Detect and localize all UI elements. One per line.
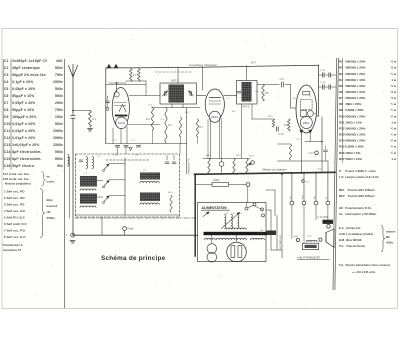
svg-text:Transfo alimentation Tous sect: Transfo alimentation Tous secteurs xyxy=(345,263,391,267)
svg-text:50v: 50v xyxy=(57,164,63,168)
coil row under D xyxy=(140,203,159,205)
speaker connector terminal 2 xyxy=(302,201,306,205)
pickup jack terminal xyxy=(251,161,255,165)
output transformer primary blob xyxy=(323,220,334,224)
svg-text:20000Ω ± 10%: 20000Ω ± 10% xyxy=(345,78,365,82)
svg-text:HP.: HP. xyxy=(339,206,344,210)
svg-text:Lampes pilotes 6,3v-0,3A: Lampes pilotes 6,3v-0,3A xyxy=(345,175,378,179)
V1 triode anode xyxy=(119,105,126,112)
rectifier anode left xyxy=(231,246,235,258)
MF2 rail feed xyxy=(246,66,248,81)
commande CV vertical wire xyxy=(186,108,188,174)
svg-text:R.1: R.1 xyxy=(93,118,97,121)
svg-text:Potent. 0,5MΩ A + inter.: Potent. 0,5MΩ A + inter. xyxy=(345,169,377,173)
secondary winding right xyxy=(251,238,265,239)
svg-text:50000Ω ± 20%: 50000Ω ± 20% xyxy=(345,139,365,143)
svg-text:R10: R10 xyxy=(339,114,345,118)
left edge vertical wire xyxy=(105,68,107,144)
svg-text:50000Ω ± 20%: 50000Ω ± 20% xyxy=(345,60,365,64)
padding trimmer in block xyxy=(79,159,83,161)
wire V2 plate to MF2 xyxy=(224,95,237,97)
svg-text:R12: R12 xyxy=(339,126,345,130)
svg-text:550v: 550v xyxy=(55,157,63,161)
V1 name cartouche xyxy=(116,117,128,129)
svg-text:500v: 500v xyxy=(55,94,63,98)
coupling capacitor xyxy=(281,82,283,87)
svg-text:C13: C13 xyxy=(4,143,11,147)
400 ohm wires xyxy=(195,184,212,186)
MF1 transformer box xyxy=(160,83,197,104)
svg-text:Schéma de principe: Schéma de principe xyxy=(101,255,166,262)
HT filter cap 2a xyxy=(321,85,323,89)
svg-text:B.M.: B.M. xyxy=(339,238,345,242)
svg-text:250v: 250v xyxy=(55,101,63,105)
svg-text:0,05μF ± 20%: 0,05μF ± 20% xyxy=(12,87,35,91)
svg-text:½ w: ½ w xyxy=(391,66,397,70)
wire V1 lower right xyxy=(127,123,160,125)
svg-text:C.47: C.47 xyxy=(307,236,312,238)
svg-text:50000Ω ± 20%: 50000Ω ± 20% xyxy=(345,72,365,76)
svg-text:7.A: 7.A xyxy=(260,229,264,232)
svg-text:Transfo Sortie: Transfo Sortie xyxy=(346,244,365,248)
wire V1 plate to MF1 xyxy=(129,95,160,97)
svg-text:C3: C3 xyxy=(4,73,9,77)
svg-text:C8: C8 xyxy=(4,108,9,112)
antenna xyxy=(69,65,78,78)
svg-text:C.17: C.17 xyxy=(309,152,315,155)
electrolytic block right of box xyxy=(267,231,277,236)
svg-text:MF2: MF2 xyxy=(339,194,345,198)
400 ohm terminal xyxy=(246,183,250,187)
svg-text:455kc.: 455kc. xyxy=(47,216,56,220)
frame aerial coil b xyxy=(92,157,94,169)
svg-text:½ w: ½ w xyxy=(391,60,397,64)
svg-text:T.S.: T.S. xyxy=(339,244,344,248)
IF decoupling resistor d xyxy=(196,119,198,137)
svg-text:d'acord: d'acord xyxy=(47,204,58,208)
secondary winding mid xyxy=(217,238,247,240)
V2 plate bar xyxy=(210,97,221,99)
IF decoupling resistor b xyxy=(165,108,167,144)
svg-text:1 Self osc. PO: 1 Self osc. PO xyxy=(4,190,25,194)
svg-text:C7: C7 xyxy=(4,101,9,105)
output tube V3 envelope xyxy=(296,85,317,133)
HT filter cap 1a xyxy=(321,73,323,77)
svg-text:C.14: C.14 xyxy=(258,233,264,235)
svg-text:100μμF ± 20%: 100μμF ± 20% xyxy=(12,115,36,119)
pilot feed wire xyxy=(211,235,213,244)
IF decoupling resistor c xyxy=(179,117,181,137)
HT caps row2 leads xyxy=(319,86,323,88)
wire right HT vertical xyxy=(318,65,320,116)
oscillator coil block A xyxy=(80,176,97,187)
svg-text:4 Self osc. GO: 4 Self osc. GO xyxy=(4,209,26,213)
svg-text:R8: R8 xyxy=(339,102,343,106)
svg-text:50000Ω ± 20%: 50000Ω ± 20% xyxy=(345,96,365,100)
svg-text:150Ω ± 10%: 150Ω ± 10% xyxy=(345,120,362,124)
svg-text:R.13: R.13 xyxy=(249,156,254,158)
svg-text:Commande CV: Commande CV xyxy=(188,158,191,175)
mains terminal xyxy=(71,233,75,237)
transformer horizontal winding xyxy=(226,228,246,229)
svg-text:interrupteur { HP 455kc: interrupteur { HP 455kc xyxy=(345,212,376,216)
svg-text:400Ω: 400Ω xyxy=(213,178,219,182)
V2 heater pins xyxy=(207,120,209,159)
selector terminal right a xyxy=(261,208,264,211)
svg-text:150v: 150v xyxy=(55,115,63,119)
V3 anode circle right xyxy=(308,111,314,117)
heater wire row above bus xyxy=(203,158,250,160)
tone network horizontal xyxy=(278,143,291,145)
padder coil block C xyxy=(140,173,160,180)
waveband switch arrow 1 xyxy=(104,164,109,170)
svg-text:500v: 500v xyxy=(55,66,63,70)
speaker magnet box xyxy=(303,243,319,249)
svg-text:49pF céramique: 49pF céramique xyxy=(12,66,40,70)
svg-text:¼ w: ¼ w xyxy=(391,126,397,130)
svg-text:R1: R1 xyxy=(339,60,343,64)
svg-text:R4: R4 xyxy=(339,78,343,82)
svg-text:T.A.: T.A. xyxy=(339,263,344,267)
switch feed wire xyxy=(247,186,249,202)
svg-text:C17 Cond. var. Osc.: C17 Cond. var. Osc. xyxy=(3,172,30,176)
svg-text:1500v: 1500v xyxy=(53,80,63,84)
MF2 bottom wires xyxy=(241,104,243,159)
svg-text:C12: C12 xyxy=(4,136,11,140)
wire down to bus right xyxy=(321,161,323,172)
svg-text:440.: 440. xyxy=(56,59,63,63)
svg-text:¼ w: ¼ w xyxy=(391,114,397,118)
svg-text:R.15: R.15 xyxy=(268,116,273,118)
svg-text:HAUT-PARLEUR: HAUT-PARLEUR xyxy=(298,255,320,259)
screen resistor R3 xyxy=(138,69,141,82)
V2 grid dashes xyxy=(209,100,221,102)
block bottom wire xyxy=(76,214,180,216)
speaker cone xyxy=(326,229,334,248)
svg-text:C4: C4 xyxy=(4,80,9,84)
svg-text:R9: R9 xyxy=(339,108,343,112)
left feed vertical wire xyxy=(69,157,71,218)
HT filter cap 2b xyxy=(328,85,330,89)
svg-text:CAD: CAD xyxy=(339,232,345,236)
antenna series capacitor xyxy=(71,114,75,116)
svg-text:R14: R14 xyxy=(339,139,345,143)
selector link wire xyxy=(255,206,263,209)
antenna branch wire xyxy=(73,110,90,112)
speaker connector verticals xyxy=(291,173,293,202)
rail label underline dashes xyxy=(155,71,192,73)
svg-text:1 w: 1 w xyxy=(391,120,397,124)
HT caps row1 leads xyxy=(319,74,323,76)
svg-text:50μμF ± 10%: 50μμF ± 10% xyxy=(12,108,34,112)
scan speckle noise xyxy=(11,30,394,306)
svg-text:C.12: C.12 xyxy=(296,139,301,141)
selector terminal right b xyxy=(262,214,265,217)
svg-text:0,01μF ± 20%: 0,01μF ± 20% xyxy=(12,136,35,140)
speaker field terminal a xyxy=(296,238,299,241)
left coil list header xyxy=(3,172,58,253)
svg-text:500Ω ± 10%: 500Ω ± 10% xyxy=(345,157,362,161)
svg-text:30000Ω ± 20%: 30000Ω ± 20% xyxy=(345,66,365,70)
svg-text:8μF électrochim.: 8μF électrochim. xyxy=(12,150,41,154)
svg-text:½ w: ½ w xyxy=(391,96,397,100)
switch link wires xyxy=(97,180,103,182)
block inner vertical wire xyxy=(124,158,126,215)
svg-text:50000Ω ± 20%: 50000Ω ± 20% xyxy=(345,84,365,88)
bias resistor c xyxy=(246,159,248,174)
svg-text:en: en xyxy=(47,175,51,179)
transformer primary coil 3 xyxy=(238,215,239,229)
MF2 bottom link wire xyxy=(252,118,274,120)
svg-text:50μμF 2% mica 2kv: 50μμF 2% mica 2kv xyxy=(12,73,46,77)
mid band wire below MF1 xyxy=(152,107,201,109)
wire tuning box to mains line xyxy=(101,217,103,235)
resistor bottom stubs xyxy=(152,130,154,144)
svg-text:0,5MΩ ± 20%: 0,5MΩ ± 20% xyxy=(345,108,364,112)
svg-text:à la plaque Télévision: à la plaque Télévision xyxy=(189,63,217,67)
svg-text:R15: R15 xyxy=(339,145,345,149)
svg-text:R2: R2 xyxy=(339,66,343,70)
svg-text:30000Ω ± 20%: 30000Ω ± 20% xyxy=(345,126,365,130)
svg-text:R6: R6 xyxy=(339,90,343,94)
svg-text:Potentiomètre R 24,: Potentiomètre R 24, xyxy=(345,206,371,210)
svg-text:C2: C2 xyxy=(4,66,9,70)
svg-text:¼ w: ¼ w xyxy=(391,145,397,149)
svg-text:E.A.: E.A. xyxy=(339,226,345,230)
speaker connector terminal 4 xyxy=(326,201,330,205)
grid resistor before V3 xyxy=(288,119,291,131)
ground below antenna resistor xyxy=(88,128,93,130)
pickup jack arrow xyxy=(247,163,252,166)
rectifier anode right xyxy=(238,246,242,258)
svg-text:Bloc MF/HF.: Bloc MF/HF. xyxy=(346,238,362,242)
svg-text:Entrée Ant.: Entrée Ant. xyxy=(346,226,361,230)
svg-text:MF1: MF1 xyxy=(339,188,345,192)
svg-text:C.15: C.15 xyxy=(321,70,326,72)
wire under screen resistors xyxy=(126,80,146,82)
cathode bypass cap xyxy=(276,127,278,131)
wire row above AVC caps xyxy=(106,143,187,145)
antenna lead wire lower xyxy=(72,118,74,235)
transformer primary coil 2 xyxy=(231,215,232,229)
svg-text:C15: C15 xyxy=(4,157,11,161)
V1 grid dashes xyxy=(115,102,128,104)
vertical rail to V2 screen xyxy=(202,67,204,90)
wire horizontal mid output xyxy=(305,141,322,143)
svg-text:R.10: R.10 xyxy=(293,98,298,100)
svg-text:P.: P. xyxy=(339,169,342,173)
svg-text:ALIMENTATION: ALIMENTATION xyxy=(202,206,228,210)
converter tube V1 envelope xyxy=(112,88,129,129)
secondary winding left xyxy=(205,238,216,239)
frame aerial coil a xyxy=(86,157,88,169)
MF2 diode load resistor xyxy=(262,85,265,102)
speaker wires down xyxy=(291,205,293,239)
svg-text:1 w: 1 w xyxy=(391,157,397,161)
output net cap xyxy=(324,149,328,151)
svg-text:Noyaux (réglables): Noyaux (réglables) xyxy=(5,182,31,186)
svg-text:T: T xyxy=(66,234,68,238)
svg-text:2 Self acc. GO: 2 Self acc. GO xyxy=(4,196,25,200)
svg-text:M.F.2: M.F.2 xyxy=(243,104,250,108)
electrolytic plus symbol 1 xyxy=(107,64,111,68)
coil under block B xyxy=(80,206,96,208)
speaker connector terminal 3 xyxy=(314,201,318,205)
block right trimmer caps xyxy=(165,161,169,163)
HT supply rail xyxy=(106,65,319,68)
svg-text:7 Self osc. P.O: 7 Self osc. P.O xyxy=(4,229,26,233)
thick vertical supply line xyxy=(194,174,196,256)
svg-text:550v: 550v xyxy=(55,150,63,154)
wire MF1 to V2 grid xyxy=(197,95,206,97)
V3 top electrode xyxy=(303,92,310,95)
V2 cathode wires down xyxy=(210,119,212,159)
svg-text:C18 Cond. var. Acc.: C18 Cond. var. Acc. xyxy=(3,177,30,181)
svg-text:HF: HF xyxy=(47,210,51,214)
svg-text:EBL1: EBL1 xyxy=(303,121,310,125)
400 ohm resistor box xyxy=(212,183,229,187)
V3 cathode arrow left xyxy=(300,130,303,133)
svg-text:L.P.: L.P. xyxy=(339,175,344,179)
svg-text:C6: C6 xyxy=(4,94,9,98)
AVC dashed line xyxy=(106,159,150,161)
pilot lamp upper circle xyxy=(207,244,217,254)
mains bottom line xyxy=(73,234,198,236)
svg-text:vers cadre ext.: vers cadre ext. xyxy=(279,235,282,250)
svg-text:C.16: C.16 xyxy=(321,82,326,84)
svg-text:150Ω ± 5%: 150Ω ± 5% xyxy=(345,151,360,155)
svg-text:Masse du chassis: Masse du chassis xyxy=(263,168,287,172)
svg-text:8μF électrochim.: 8μF électrochim. xyxy=(12,157,41,161)
svg-text:Transfo MF2 455kc/s: Transfo MF2 455kc/s xyxy=(348,194,376,198)
svg-text:R13: R13 xyxy=(339,133,345,137)
svg-text:valeurs: valeurs xyxy=(386,230,396,234)
svg-text:A.B.: A.B. xyxy=(294,235,299,238)
V3 name cartouche xyxy=(300,117,312,129)
V3 screen dashed box xyxy=(300,100,312,110)
svg-text:C11: C11 xyxy=(4,129,10,133)
svg-text:15000Ω ± 20%: 15000Ω ± 20% xyxy=(345,90,365,94)
wire to V3 grid xyxy=(290,85,292,109)
electrolytic plus symbol 2 xyxy=(114,64,118,68)
svg-text:1 w: 1 w xyxy=(391,78,397,82)
svg-text:1MΩ ± 20%: 1MΩ ± 20% xyxy=(345,102,361,106)
wire output coupling vertical xyxy=(321,117,323,161)
svg-text:M.F.1: M.F.1 xyxy=(172,79,179,83)
svg-text:0,02μF ± 20%: 0,02μF ± 20% xyxy=(12,122,35,126)
svg-text:R5: R5 xyxy=(339,84,343,88)
svg-text:R.11: R.11 xyxy=(206,155,211,157)
frame aerial feed coil xyxy=(68,155,69,167)
padder coil block D xyxy=(140,193,160,202)
svg-text:C16: C16 xyxy=(4,164,11,168)
svg-text:2x0,05μF ± 20%: 2x0,05μF ± 20% xyxy=(12,143,39,147)
alim right vertical a xyxy=(270,210,272,250)
left capacitor parts table xyxy=(3,59,63,170)
svg-text:3 Self acc. PO: 3 Self acc. PO xyxy=(4,203,25,207)
pilot lamp lower circle xyxy=(207,252,217,262)
tone resistor xyxy=(289,144,291,160)
svg-text:1500v: 1500v xyxy=(53,136,63,140)
svg-text:R.12: R.12 xyxy=(236,155,241,157)
svg-text:R7: R7 xyxy=(339,96,343,100)
mains ground xyxy=(70,240,75,242)
stub wires into tuning box xyxy=(117,147,119,154)
wire MF1 bottom down xyxy=(171,104,173,108)
svg-text:¼ w: ¼ w xyxy=(391,108,397,112)
mid ground triangle xyxy=(129,148,132,151)
MF1 right trimmer xyxy=(191,91,193,95)
svg-text:usine: usine xyxy=(47,180,55,184)
bias resistor a xyxy=(208,159,210,174)
svg-text:R11: R11 xyxy=(339,120,345,124)
fuse terminal xyxy=(123,227,127,231)
svg-text:R16: R16 xyxy=(339,151,345,155)
svg-text:½ w: ½ w xyxy=(391,84,397,88)
cathode resistor xyxy=(272,119,274,127)
svg-text:750v: 750v xyxy=(55,108,63,112)
field coil xyxy=(306,240,317,241)
lower output net horizontal xyxy=(278,160,329,162)
dial lamp circle xyxy=(219,162,224,167)
svg-text:750v: 750v xyxy=(55,73,63,77)
vertical rail to MF1 xyxy=(177,67,179,83)
svg-text:2x490pF, 2x15pF CV: 2x490pF, 2x15pF CV xyxy=(12,59,48,63)
svg-text:R.14: R.14 xyxy=(168,192,173,194)
chassis ground bus thick xyxy=(195,172,336,174)
wire V3 plate to output transformer xyxy=(317,115,319,117)
svg-text:500v: 500v xyxy=(55,122,63,126)
svg-text:C.40: C.40 xyxy=(113,155,118,157)
junction terminal above connector xyxy=(302,180,305,183)
svg-text:0,1μF ± 20%: 0,1μF ± 20% xyxy=(12,80,33,84)
terminal C17 xyxy=(315,151,319,155)
svg-text:25000Ω ± 20%: 25000Ω ± 20% xyxy=(345,114,365,118)
MF2 left trimmer cap xyxy=(237,91,241,93)
svg-text:1500v: 1500v xyxy=(53,143,63,147)
svg-text:H.T.: H.T. xyxy=(251,61,257,65)
svg-text:0,02μF ± 20%: 0,02μF ± 20% xyxy=(12,129,35,133)
svg-text:¼ w: ¼ w xyxy=(391,139,397,143)
coil under block A xyxy=(80,189,96,191)
right resistor parts table xyxy=(339,58,397,163)
svg-text:R3: R3 xyxy=(339,72,343,76)
svg-text:Bloc: Bloc xyxy=(47,198,54,202)
svg-text:« » 110 à 245 volts: « » 110 à 245 volts xyxy=(352,270,376,274)
AVC caps under V1 no2 xyxy=(124,145,128,147)
MF2 core windings xyxy=(242,82,252,102)
svg-text:C5: C5 xyxy=(4,87,9,91)
svg-text:EBF2: EBF2 xyxy=(212,115,219,119)
mains dash-dot line xyxy=(75,217,198,219)
mains entry arrow xyxy=(203,212,209,217)
right rail double line xyxy=(333,58,337,290)
svg-text:455kc: 455kc xyxy=(386,241,394,245)
V2 name cartouche xyxy=(209,111,220,122)
AVC caps under V1 no1 xyxy=(116,145,120,147)
speaker field terminal b xyxy=(319,238,322,241)
svg-text:C14: C14 xyxy=(4,150,11,154)
wire V1 top cap to rail xyxy=(116,83,118,92)
svg-text:¼ w: ¼ w xyxy=(391,151,397,155)
V3 anode rect left xyxy=(301,111,307,117)
coil row under C xyxy=(140,181,159,183)
MF1 core windings xyxy=(169,85,185,103)
svg-text:Int.: Int. xyxy=(339,212,343,216)
waveband switch arrow 2 xyxy=(104,181,109,187)
svg-text:50μF électro.: 50μF électro. xyxy=(12,164,35,168)
svg-text:C1: C1 xyxy=(4,59,9,63)
